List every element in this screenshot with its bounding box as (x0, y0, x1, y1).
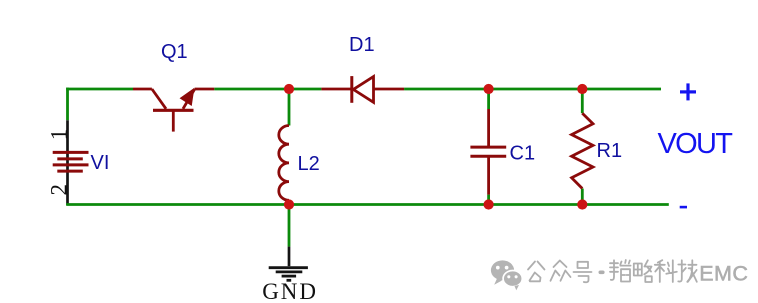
wire R1 bottom lead green (581, 189, 584, 205)
wire bottom rail green (66, 203, 669, 206)
diode D1 (321, 76, 404, 103)
wire L2 top lead green (288, 89, 291, 126)
junction dot top C1 (484, 84, 494, 94)
junction dot bottom C1 (484, 199, 494, 209)
wire left vertical green (66, 88, 69, 121)
watermark wechat icon (491, 260, 522, 290)
wire top rail left green segment (66, 88, 133, 91)
svg-text:EMC: EMC (699, 261, 748, 285)
char hao (574, 262, 592, 282)
wire R1 top lead green (581, 89, 584, 113)
capacitor C1 (470, 109, 506, 195)
char gong (528, 262, 545, 282)
svg-text:R1: R1 (597, 140, 623, 162)
battery VI plates (53, 152, 89, 171)
svg-text:GND: GND (262, 279, 318, 303)
svg-text:L2: L2 (298, 153, 320, 175)
wire gnd stub black (288, 247, 291, 267)
transistor Q1 (133, 89, 214, 132)
junction dot bottom R1 (577, 199, 587, 209)
watermark text (528, 260, 697, 282)
wire battery lead black (66, 120, 69, 205)
char tao (610, 260, 631, 282)
svg-text:C1: C1 (510, 143, 536, 165)
wire C1 top lead green (487, 89, 490, 109)
svg-text:2: 2 (47, 184, 72, 196)
inductor L2 (279, 126, 289, 201)
junction dot top R1 (577, 84, 587, 94)
char zhong (551, 261, 571, 281)
resistor R1 (572, 113, 593, 188)
svg-text:Q1: Q1 (161, 41, 188, 63)
wire C1 bottom lead green (487, 195, 490, 205)
svg-text:1: 1 (47, 129, 72, 141)
junction dot top L2 (284, 84, 294, 94)
svg-text:D1: D1 (349, 34, 375, 56)
separator dot (600, 270, 603, 274)
wire gnd stub green (288, 205, 291, 247)
char lue (634, 260, 652, 282)
node - (680, 206, 687, 209)
char ji (678, 260, 697, 282)
wire top rail right green segment (404, 88, 661, 91)
junction dot bottom L2 (284, 199, 294, 209)
transistor Q1 emitter arrowhead (181, 89, 194, 105)
ground (269, 268, 308, 281)
svg-text:VI: VI (91, 152, 110, 174)
char ke (655, 260, 677, 282)
wire top rail middle green segment (214, 88, 321, 91)
svg-text:VOUT: VOUT (658, 128, 734, 160)
node + (680, 83, 696, 100)
